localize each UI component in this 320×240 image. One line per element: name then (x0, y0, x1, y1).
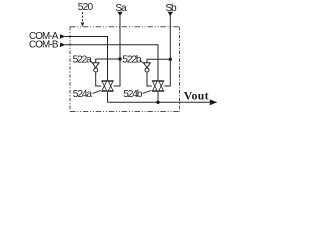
inverter 522b (144, 63, 151, 72)
wire inverter 522a output to gate (96, 72, 102, 86)
dashed enclosure box 520 : top edge (70, 26, 180, 28)
wire COM-A (65, 37, 108, 81)
svg-text:524b: 524b (123, 89, 143, 100)
dashed enclosure box 520 : right edge (179, 27, 181, 112)
svg-text:522a: 522a (73, 54, 93, 65)
wire 524a output down (107, 91, 109, 102)
output bus wire (108, 101, 212, 103)
wire Sb vertical (164, 14, 170, 86)
svg-text:524a: 524a (73, 89, 93, 100)
svg-text:Vout: Vout (184, 89, 209, 103)
leader for 522a (90, 60, 93, 63)
input arrow Sa (117, 12, 122, 16)
wire inverter 522b output to gate (147, 72, 152, 86)
junction dot output (156, 101, 159, 104)
transmission gate 524b (152, 81, 164, 91)
leader for 522b (140, 60, 145, 63)
input arrow COM-B (60, 43, 66, 47)
junction dot Sa (118, 57, 121, 60)
wire Sa to inverter 522a input (96, 59, 120, 63)
input arrow Sb (168, 12, 173, 16)
wire Sb to inverter 522b input (147, 59, 170, 63)
svg-text:522b: 522b (122, 54, 142, 65)
dashed enclosure box 520 : left edge (69, 27, 71, 112)
leader for 524b (143, 90, 152, 93)
junction dot Sb (169, 58, 172, 61)
dashed enclosure box 520 : bottom edge (70, 111, 180, 113)
svg-text:COM-B: COM-B (29, 39, 59, 50)
inverter 522a (92, 63, 99, 72)
wire COM-B (65, 45, 158, 81)
output arrow Vout (210, 99, 218, 105)
wire 524b output down (157, 91, 159, 102)
transmission gate 524a (101, 81, 113, 91)
leader arrow for 520 (81, 12, 85, 27)
input arrow COM-A (60, 34, 66, 38)
leader for 524a (93, 90, 101, 93)
wire Sa vertical (114, 14, 120, 86)
svg-text:520: 520 (78, 2, 94, 13)
